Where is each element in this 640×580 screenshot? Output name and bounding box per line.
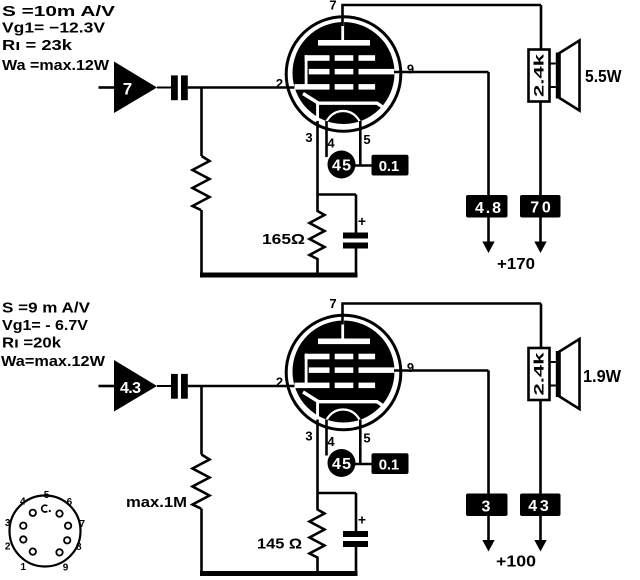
svg-text:+170: +170 [497,256,535,273]
socket pin 3 [20,523,26,529]
socket pin 2 [20,536,26,542]
socket pin 8 [64,537,70,543]
svg-text:4: 4 [20,497,26,508]
svg-text:5.5W: 5.5W [585,66,622,86]
socket pin 7 [65,523,71,529]
svg-text:6: 6 [67,497,73,508]
svg-text:2: 2 [5,542,11,553]
socket pin 5 marker C [42,505,48,512]
socket pin 9 [56,549,62,555]
socket outline [10,496,81,567]
svg-text:Rı = 23k: Rı = 23k [2,37,73,54]
svg-text:1.9W: 1.9W [583,366,621,386]
svg-text:Wa =max.12W: Wa =max.12W [2,57,110,74]
svg-text:4.3: 4.3 [120,380,141,397]
svg-text:Wa=max.12W: Wa=max.12W [1,353,106,370]
svg-text:4.8: 4.8 [475,200,501,217]
svg-text:5: 5 [44,490,50,501]
svg-text:1: 1 [21,562,27,573]
circuit 1 (top) [99,0,580,275]
svg-text:165Ω: 165Ω [262,231,305,248]
svg-text:3: 3 [482,499,491,516]
svg-text:9: 9 [63,563,69,574]
svg-text:145 Ω: 145 Ω [257,536,302,553]
circuit 2 (bottom) [99,296,580,574]
socket pin 4 [30,510,36,516]
svg-text:Rı =20k: Rı =20k [2,335,62,352]
svg-text:Vg1= −12.3V: Vg1= −12.3V [2,20,105,37]
svg-text:S =10m A/V: S =10m A/V [2,3,115,20]
svg-text:S =9 m A/V: S =9 m A/V [2,300,90,317]
socket pin 1 [30,548,36,554]
svg-text:3: 3 [5,518,11,529]
svg-text:max.1M: max.1M [126,495,187,511]
svg-text:+100: +100 [496,554,536,571]
socket pin 6 [56,510,62,516]
svg-text:7: 7 [123,80,132,99]
svg-text:7: 7 [80,519,86,530]
svg-text:8: 8 [76,542,82,553]
svg-text:Vg1= - 6.7V: Vg1= - 6.7V [2,317,88,334]
